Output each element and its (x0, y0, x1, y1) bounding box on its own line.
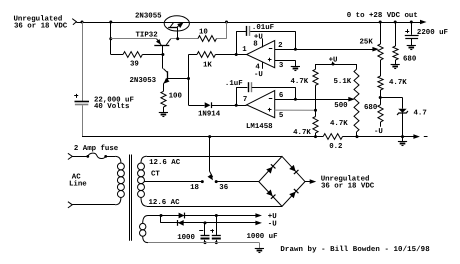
svg-text:680: 680 (403, 55, 417, 63)
svg-text:LM1458: LM1458 (246, 123, 273, 131)
svg-text:0.2: 0.2 (329, 143, 342, 151)
svg-text:25K: 25K (360, 38, 374, 46)
svg-text:500: 500 (334, 102, 348, 110)
svg-text:Drawn by - Bill Bowden - 10/15: Drawn by - Bill Bowden - 10/15/98 (280, 245, 430, 254)
svg-text:CT: CT (151, 170, 160, 178)
svg-text:2200 uF: 2200 uF (417, 29, 448, 37)
svg-text:.01uF: .01uF (252, 24, 274, 32)
svg-text:4.7: 4.7 (414, 109, 427, 117)
svg-text:2 Amp fuse: 2 Amp fuse (74, 144, 119, 153)
svg-text:-U: -U (254, 71, 263, 79)
svg-text:6: 6 (279, 92, 284, 100)
svg-text:4.7K: 4.7K (291, 78, 309, 86)
svg-text:7: 7 (243, 96, 247, 104)
svg-text:-U: -U (268, 221, 277, 229)
svg-text:40 Volts: 40 Volts (94, 102, 129, 111)
svg-text:3: 3 (279, 62, 284, 70)
svg-text:2: 2 (278, 42, 282, 50)
svg-text:12.6 AC: 12.6 AC (149, 159, 181, 167)
svg-text:4.7K: 4.7K (293, 129, 311, 137)
svg-text:2N3053: 2N3053 (130, 77, 157, 85)
svg-text:Line: Line (69, 180, 87, 189)
svg-text:680: 680 (364, 104, 378, 112)
svg-text:-U: -U (374, 128, 383, 136)
svg-text:1000: 1000 (177, 234, 195, 242)
svg-text:36: 36 (219, 184, 228, 192)
svg-text:2N3055: 2N3055 (135, 13, 162, 21)
svg-text:1K: 1K (203, 62, 212, 70)
svg-text:+U: +U (329, 56, 338, 64)
svg-text:12.6 AC: 12.6 AC (149, 199, 181, 207)
svg-text:100: 100 (169, 93, 183, 101)
svg-text:0 to +28 VDC out: 0 to +28 VDC out (347, 12, 418, 20)
svg-text:39: 39 (130, 61, 139, 69)
svg-text:5.1K: 5.1K (334, 78, 352, 86)
svg-text:36 or 18 VDC: 36 or 18 VDC (14, 22, 68, 30)
svg-text:8: 8 (253, 41, 258, 49)
svg-text:1: 1 (242, 46, 247, 54)
svg-text:5: 5 (279, 112, 284, 120)
svg-text:10: 10 (199, 28, 208, 36)
svg-text:1N914: 1N914 (198, 111, 221, 119)
svg-text:4.7K: 4.7K (389, 79, 407, 87)
svg-text:18: 18 (190, 184, 199, 192)
svg-text:36 or 18 VDC: 36 or 18 VDC (321, 183, 375, 191)
svg-text:TIP32: TIP32 (136, 32, 158, 40)
svg-text:4.7K: 4.7K (330, 120, 348, 128)
svg-text:1000 uF: 1000 uF (247, 233, 278, 241)
svg-text:.1uF: .1uF (225, 80, 243, 88)
